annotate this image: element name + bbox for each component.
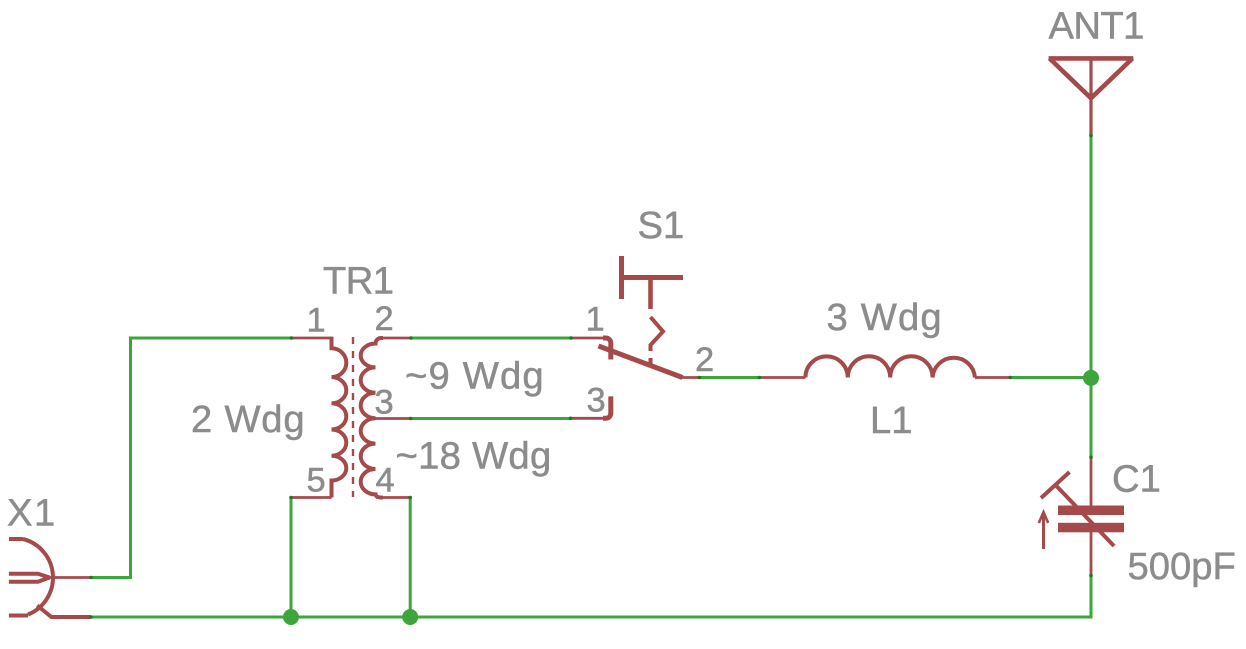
switch S1 lever xyxy=(599,346,683,378)
wire bottom bus X1 sleeve to C1 bottom xyxy=(91,576,1091,617)
svg-text:~9 Wdg: ~9 Wdg xyxy=(405,355,545,398)
svg-text:ANT1: ANT1 xyxy=(1049,4,1144,47)
transformer TR1 primary winding (pins 1,5) xyxy=(290,337,346,498)
svg-text:X1: X1 xyxy=(7,492,57,535)
X1 tip pin xyxy=(50,576,92,579)
switch S1 pin 3 contact xyxy=(571,396,611,418)
C1 trimmer arrow head bar xyxy=(1041,472,1070,498)
wire ANT1 stem down to node A and on to C1 xyxy=(1090,136,1093,458)
X1 sleeve contact xyxy=(37,606,91,618)
node A junction dot xyxy=(1083,370,1099,386)
svg-text:1: 1 xyxy=(307,301,326,339)
svg-text:~18 Wdg: ~18 Wdg xyxy=(396,434,552,477)
switch S1 pin 1 contact xyxy=(571,338,611,360)
svg-text:2 Wdg: 2 Wdg xyxy=(191,398,305,441)
wire TR1 pin2 to S1 pin1 xyxy=(411,337,571,340)
wire TR1 pin4 down to bus xyxy=(409,498,412,617)
C1 bottom plate xyxy=(1058,523,1124,533)
variable capacitor C1 xyxy=(1090,457,1093,575)
wire TR1 pin5 down to bus xyxy=(290,498,293,617)
wire L1 to node A xyxy=(1010,376,1091,379)
connector X1 tip contact fork xyxy=(9,574,50,582)
inductor L1 xyxy=(759,356,1010,377)
wire S1 pin2 to L1 xyxy=(699,376,759,379)
svg-text:2: 2 xyxy=(695,341,714,379)
svg-text:4: 4 xyxy=(376,462,395,500)
svg-text:S1: S1 xyxy=(638,204,685,247)
junction dot at TR1 pin5 / bus xyxy=(283,609,299,625)
transformer TR1 core (dashed) xyxy=(352,337,354,497)
svg-text:3 Wdg: 3 Wdg xyxy=(827,296,943,339)
pin connection dots (dark green) xyxy=(89,134,1093,619)
svg-text:C1: C1 xyxy=(1112,458,1161,501)
svg-text:500pF: 500pF xyxy=(1128,545,1236,588)
junction dot at TR1 pin4 / bus xyxy=(402,609,418,625)
svg-text:1: 1 xyxy=(586,301,605,339)
svg-text:3: 3 xyxy=(587,381,606,419)
switch S1 pin 2 xyxy=(681,376,700,379)
svg-text:2: 2 xyxy=(375,300,394,338)
C1 small up arrow xyxy=(1039,512,1048,549)
transformer TR1 secondary winding (pins 2,3,4) xyxy=(361,338,411,498)
C1 top plate xyxy=(1058,506,1124,516)
antenna ANT1 xyxy=(1049,58,1134,135)
svg-text:L1: L1 xyxy=(870,399,912,442)
svg-text:3: 3 xyxy=(375,383,394,421)
wire X1 tip to TR1 pin 1 (up and over) xyxy=(91,338,291,578)
wire TR1 pin3 to S1 pin3 xyxy=(411,417,571,420)
connector X1 body arc xyxy=(9,539,53,616)
switch S1 actuator xyxy=(622,256,684,368)
svg-text:TR1: TR1 xyxy=(323,260,393,303)
C1 trimmer arrow diagonal xyxy=(1056,486,1114,547)
svg-text:5: 5 xyxy=(307,462,326,500)
